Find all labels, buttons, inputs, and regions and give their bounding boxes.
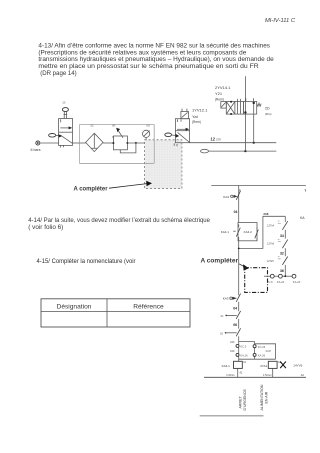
svg-text:D’URGENCE: D’URGENCE: [243, 389, 247, 411]
coil KA4.1: [222, 361, 247, 377]
svg-text:04: 04: [234, 210, 238, 214]
FRL enclosure right/bottom edges over zone: [80, 125, 155, 164]
svg-text:KC.3: KC.3: [240, 344, 246, 348]
rotated label ALIMENTATION EN AIR: [260, 384, 269, 410]
svg-text:( voir folio 6): ( voir folio 6): [28, 224, 63, 231]
valve 1YV12.1 (solenoid 3/2 valve): [174, 119, 189, 147]
svg-text:Y21: Y21: [215, 91, 223, 96]
exhaust line with silencer: [201, 149, 277, 153]
svg-text:A2: A2: [301, 374, 305, 377]
svg-text:02: 02: [220, 331, 223, 335]
terminal row: [264, 274, 301, 284]
wire terminal bus: [239, 358, 276, 360]
valve 1YV12.1 pushbutton actuator: [165, 133, 179, 138]
svg-text:2D: 2D: [265, 107, 270, 111]
label 1YV12.1 Yat (Rem): [192, 108, 208, 125]
annotation arrow A compléter (pneumatic): [74, 181, 153, 193]
svg-text:2C.6: 2C.6: [267, 280, 273, 284]
svg-text:0R: 0R: [112, 124, 115, 128]
svg-text:36: 36: [280, 269, 284, 273]
relay box KA4.2: [238, 223, 258, 241]
dash-dot box to complete: [245, 268, 268, 293]
svg-text:4-14/ Par la suite, vous devez: 4-14/ Par la suite, vous devez modifier …: [28, 217, 210, 224]
right branch terminals KC.26 / KA.26: [253, 342, 271, 360]
X symbol: [280, 362, 286, 369]
footer line: [200, 415, 264, 417]
svg-text:KA-23: KA-23: [293, 280, 301, 284]
svg-text:MI-IV-111 C: MI-IV-111 C: [265, 18, 295, 24]
svg-text:2YV14.1: 2YV14.1: [215, 85, 231, 90]
svg-text:(DR page 14): (DR page 14): [40, 70, 76, 77]
label 2D (Rm): [265, 107, 271, 117]
main wire below dash-dot box: [238, 248, 240, 293]
svg-text:KA4.1: KA4.1: [221, 230, 230, 234]
svg-text:Référence: Référence: [133, 303, 164, 310]
valve 1YV12.1 solenoid actuator: [181, 109, 189, 119]
nomenclature table: [41, 299, 190, 327]
FRL unit enclosure: [80, 124, 155, 164]
contact KA3 (with button symbol): [223, 189, 240, 200]
left branch terminals KC.3 / KA.26: [230, 342, 248, 362]
svg-text:A1: A1: [243, 361, 247, 364]
svg-text:12Ts4: 12Ts4: [267, 223, 275, 227]
wire valve 1YV12.1 output line: [190, 142, 277, 144]
svg-text:EN AIR: EN AIR: [265, 391, 269, 403]
svg-text:6 bars: 6 bars: [31, 148, 41, 152]
zone to complete (grey hatched box): [145, 140, 182, 189]
label 2YV14.1 Y21 (Rem): [215, 85, 231, 102]
annotation arrow A compléter (electrical): [201, 259, 249, 271]
svg-text:A compléter: A compléter: [74, 187, 109, 193]
svg-text:KA3: KA3: [223, 297, 229, 301]
valve 1S left pushbutton actuator: [49, 134, 62, 138]
svg-text:04F: 04F: [230, 340, 235, 344]
pressure gauge 0G: [143, 130, 150, 144]
contact 12Ts6: [267, 239, 288, 256]
svg-text:A compléter: A compléter: [201, 259, 239, 265]
svg-text:ARRET: ARRET: [238, 396, 242, 409]
limit switch chain wire: [284, 216, 286, 220]
svg-text:KA.26: KA.26: [258, 354, 266, 358]
svg-text:(Rem): (Rem): [215, 98, 224, 102]
wire filter to regulator: [103, 142, 113, 144]
junction on output line: [253, 142, 255, 144]
svg-text:1S: 1S: [62, 100, 65, 104]
svg-text:(Rm): (Rm): [265, 112, 271, 116]
svg-text:KA: KA: [300, 216, 305, 220]
svg-text:04: 04: [233, 306, 237, 310]
coil 2YA1: [260, 361, 281, 377]
branch junction: [239, 341, 255, 343]
contact KA4.1 on main wire: [221, 224, 241, 240]
wire valve 1S to FRL unit: [73, 142, 86, 144]
svg-text:KA4.2: KA4.2: [244, 230, 253, 234]
filter 0Z: [86, 133, 103, 151]
svg-text:KA4.1: KA4.1: [222, 364, 231, 368]
svg-text:Désignation: Désignation: [57, 303, 92, 310]
question 4-14 paragraph: [28, 217, 210, 231]
svg-text:KA.26: KA.26: [240, 354, 248, 358]
contact 02: [220, 328, 241, 341]
contact 12Ts5: [267, 257, 288, 277]
svg-text:KC.26: KC.26: [258, 345, 266, 349]
vertical pipe B: [253, 103, 255, 143]
rotated label ARRET D'URGENCE: [238, 389, 247, 411]
top rail: [211, 185, 306, 187]
contact 12Ts4: [267, 220, 288, 239]
bottom rail: [204, 376, 306, 378]
small mark below rail end: [304, 189, 307, 192]
svg-text:4-15/ Compléter la nomenclatur: 4-15/ Compléter la nomenclature (voir: [37, 258, 136, 265]
svg-text:01: 01: [221, 314, 224, 318]
svg-text:KCP: KCP: [266, 349, 272, 353]
svg-text:06: 06: [233, 323, 237, 327]
svg-text:(Rem): (Rem): [192, 120, 201, 124]
svg-text:208: 208: [263, 212, 268, 216]
contact KA3 (lower): [223, 293, 241, 311]
svg-text:1YV12.1: 1YV12.1: [192, 108, 208, 113]
svg-text:Yat: Yat: [192, 114, 199, 119]
svg-text:1.5²mm: 1.5²mm: [263, 374, 271, 377]
question 4-13 paragraph: [38, 43, 274, 77]
pressure regulator 0R: [112, 128, 137, 153]
valve 1S (manual 3/2 valve): [59, 100, 73, 147]
svg-text:KA-24: KA-24: [277, 280, 285, 284]
svg-text:12Ts5: 12Ts5: [267, 259, 275, 263]
svg-text:34: 34: [280, 234, 284, 238]
svg-text:32: 32: [280, 252, 284, 256]
svg-text:KA3: KA3: [223, 195, 229, 199]
valve 2D (solenoid 5/2 valve): [221, 98, 261, 115]
svg-text:ALIMENTATION: ALIMENTATION: [260, 384, 264, 410]
wire: box bottom to 208 riser: [239, 216, 286, 248]
valve 1S palm button actuator: [62, 108, 68, 119]
contact 01: [221, 311, 241, 329]
svg-text:12 cm: 12 cm: [210, 137, 221, 142]
air source 6 bars: [31, 141, 41, 152]
svg-text:04F: 04F: [230, 349, 235, 353]
svg-text:0Z: 0Z: [91, 124, 94, 128]
wire right branch upper link: [255, 344, 276, 359]
svg-text:12Ts6: 12Ts6: [267, 242, 275, 246]
svg-text:14YV6: 14YV6: [293, 363, 302, 367]
vertical pipe A: [244, 76, 246, 151]
svg-text:1.5²mm: 1.5²mm: [226, 374, 234, 377]
svg-text:A2: A2: [240, 371, 244, 374]
svg-text:2YA1: 2YA1: [260, 364, 267, 368]
wire source to valve 1S: [40, 142, 59, 144]
wire regulator to gauge junction: [127, 142, 175, 144]
wire: main vertical from rail: [238, 186, 240, 223]
svg-text:0G: 0G: [147, 124, 151, 128]
